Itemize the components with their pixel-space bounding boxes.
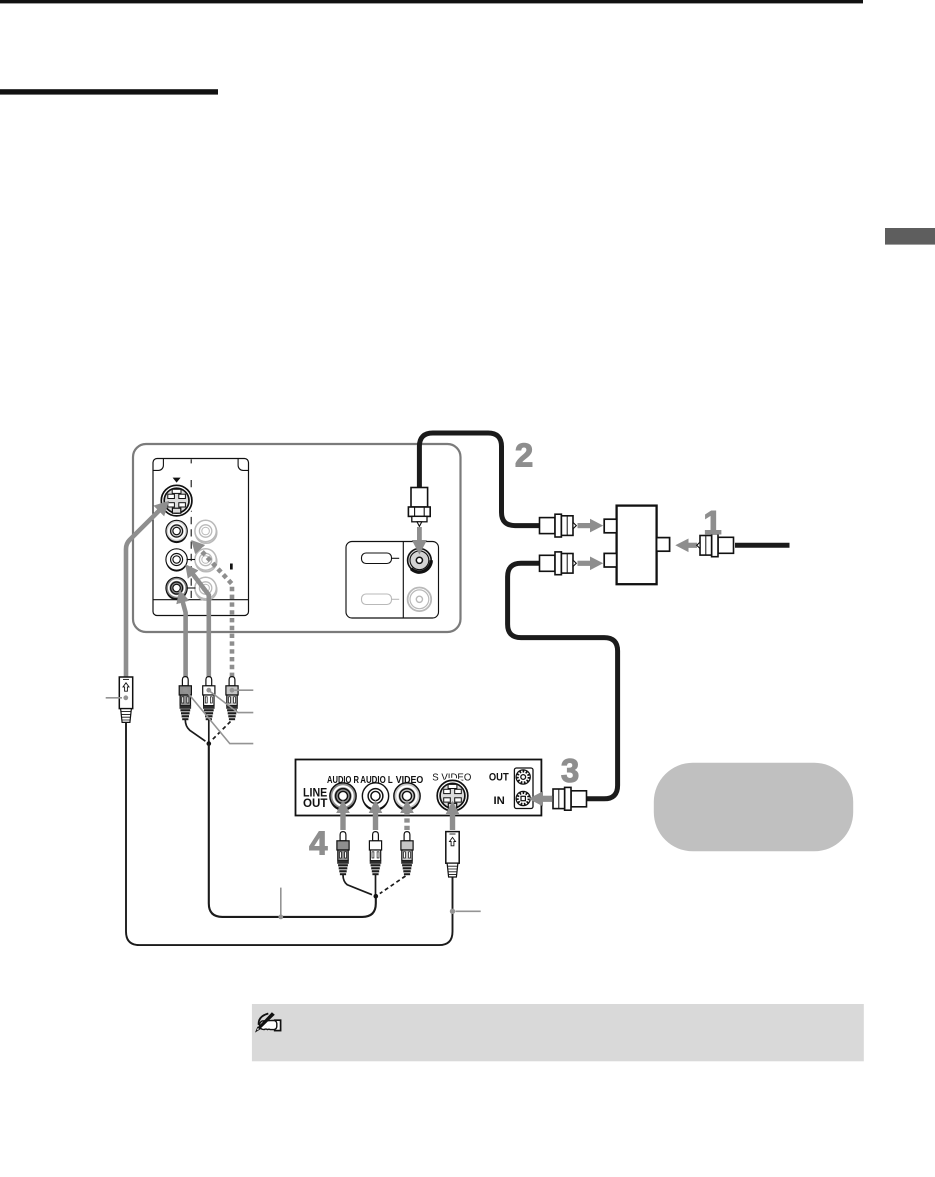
ghost slot — [362, 594, 392, 605]
A/V cable wire plug1 — [185, 720, 205, 741]
antenna sub-panel divider — [402, 542, 404, 619]
leader line plug1 — [187, 692, 254, 744]
note box — [252, 1004, 864, 1061]
chapter tab (right edge) — [885, 228, 935, 245]
slot VHF/UHF — [362, 553, 392, 564]
leader line plug2 — [210, 692, 253, 713]
VCR plug video wire (dashed) — [380, 876, 406, 894]
A/V junction TV side — [207, 741, 212, 746]
jack pair tick row3 — [187, 587, 196, 589]
TV audio R input jack — [166, 577, 187, 600]
ghost jack audio L — [195, 549, 217, 572]
splitter input tab — [657, 538, 670, 552]
coaxial cable 2 (splitter to TV) — [419, 433, 546, 526]
callout pill (speech bubble) — [654, 763, 853, 852]
TV rear panel outline — [133, 444, 461, 632]
S-video cable callout dot — [450, 909, 455, 914]
arrow TV S-video plug to jack — [126, 510, 160, 677]
dotted arrow plug into VIDEO — [404, 812, 409, 830]
orientation marker over S-video jack — [173, 478, 181, 483]
leader dot plug3 — [230, 688, 235, 693]
panel bottom line — [153, 599, 249, 601]
TV audio L input jack — [166, 549, 187, 572]
ghost jack video — [195, 520, 217, 543]
antenna plug on TV coax — [408, 488, 430, 527]
VCR audio L jack — [362, 783, 388, 811]
TV VHF/UHF coax input — [408, 549, 432, 573]
dotted arrow plug3 to TV video jack — [200, 549, 233, 677]
svg-text:4: 4 — [309, 825, 328, 862]
F connector cable3 end — [540, 552, 577, 575]
page top rule bar — [0, 0, 863, 3]
panel divider (dashed) — [190, 459, 192, 463]
S-video cable callout line — [456, 910, 481, 912]
svg-text:3: 3 — [561, 752, 579, 789]
VCR rear panel — [296, 760, 542, 816]
panel corner notch left — [153, 459, 163, 471]
svg-text:OUT: OUT — [303, 796, 328, 810]
VCR S VIDEO jack — [435, 778, 471, 814]
arrow cable3 into splitter — [578, 561, 592, 566]
leader line plug3 — [235, 689, 254, 691]
svg-text:1: 1 — [703, 504, 721, 541]
coaxial cable 3 (splitter to VCR) — [508, 563, 618, 799]
arrow plug1 to TV audio R jack — [183, 602, 186, 679]
svg-text:OUT: OUT — [489, 771, 509, 783]
TV video input jack — [166, 520, 187, 543]
A/V cable callout dot — [278, 915, 283, 920]
note pencil icon — [256, 1012, 281, 1031]
arrow plug into AUDIO R — [340, 812, 345, 830]
VCR audio R jack — [330, 783, 356, 811]
ghost slot tick — [392, 598, 400, 600]
arrow plug into S VIDEO — [450, 813, 455, 830]
arrow cable2 into splitter — [578, 523, 592, 528]
svg-text:IN: IN — [494, 795, 505, 807]
jack pair tick row2 — [187, 559, 196, 561]
leader dot plug1 — [183, 688, 188, 693]
A/V cable wire plug2 — [208, 720, 210, 742]
A/V junction VCR side — [374, 894, 379, 899]
A/V cable wire plug3 (dashed) — [212, 722, 231, 741]
S-video cable (TV plug to VCR plug) — [126, 722, 453, 946]
RF OUT jack — [516, 770, 530, 784]
TV S VIDEO input jack U1 — [159, 483, 195, 519]
leader dot TV S-video plug — [123, 695, 128, 700]
coaxial cable 1 (from antenna) — [735, 543, 790, 548]
F connector cable2 end — [540, 514, 577, 537]
arrow into TV coax — [417, 527, 422, 541]
arrow plug2 to TV audio L jack — [193, 574, 209, 678]
arrow antenna cable into splitter — [688, 543, 698, 548]
antenna splitter box — [617, 506, 657, 585]
leader dot plug2 — [206, 688, 211, 693]
TV antenna sub-panel — [346, 542, 439, 619]
splitter output tab bottom — [604, 553, 616, 567]
RF IN jack — [516, 791, 530, 805]
VCR plug audio L — [369, 832, 381, 876]
section title underline — [0, 89, 218, 94]
VCR S-video plug — [446, 832, 459, 877]
small tick on dotted arrow — [230, 564, 233, 570]
VCR video jack — [394, 783, 420, 811]
slot tick — [392, 557, 400, 559]
svg-text:2: 2 — [515, 436, 533, 473]
ghost jack audio R — [195, 577, 217, 600]
VCR plug R wire — [343, 875, 372, 895]
leader line TV S-video plug — [106, 697, 122, 699]
VCR plug video — [401, 832, 413, 876]
VCR plug audio R — [337, 832, 349, 876]
F connector at VCR IN — [550, 787, 587, 810]
F connector antenna cable — [697, 534, 734, 557]
arrow plug into AUDIO L — [373, 812, 378, 830]
A/V cable run — [209, 744, 376, 917]
A/V cable callout line — [280, 888, 282, 916]
TV A/V jack panel — [153, 459, 249, 616]
TV side plug video — [179, 677, 191, 721]
TV side plug audio L — [203, 677, 215, 721]
TV side S-video plug — [119, 677, 132, 722]
panel corner notch right — [238, 459, 248, 471]
TV side plug audio R — [226, 677, 238, 721]
splitter output tab top — [604, 519, 616, 533]
arrow cable3 into VCR IN — [542, 796, 553, 802]
ghost coax input — [408, 588, 432, 612]
RF OUT/IN block — [514, 768, 533, 809]
VCR plug L wire — [375, 875, 377, 895]
